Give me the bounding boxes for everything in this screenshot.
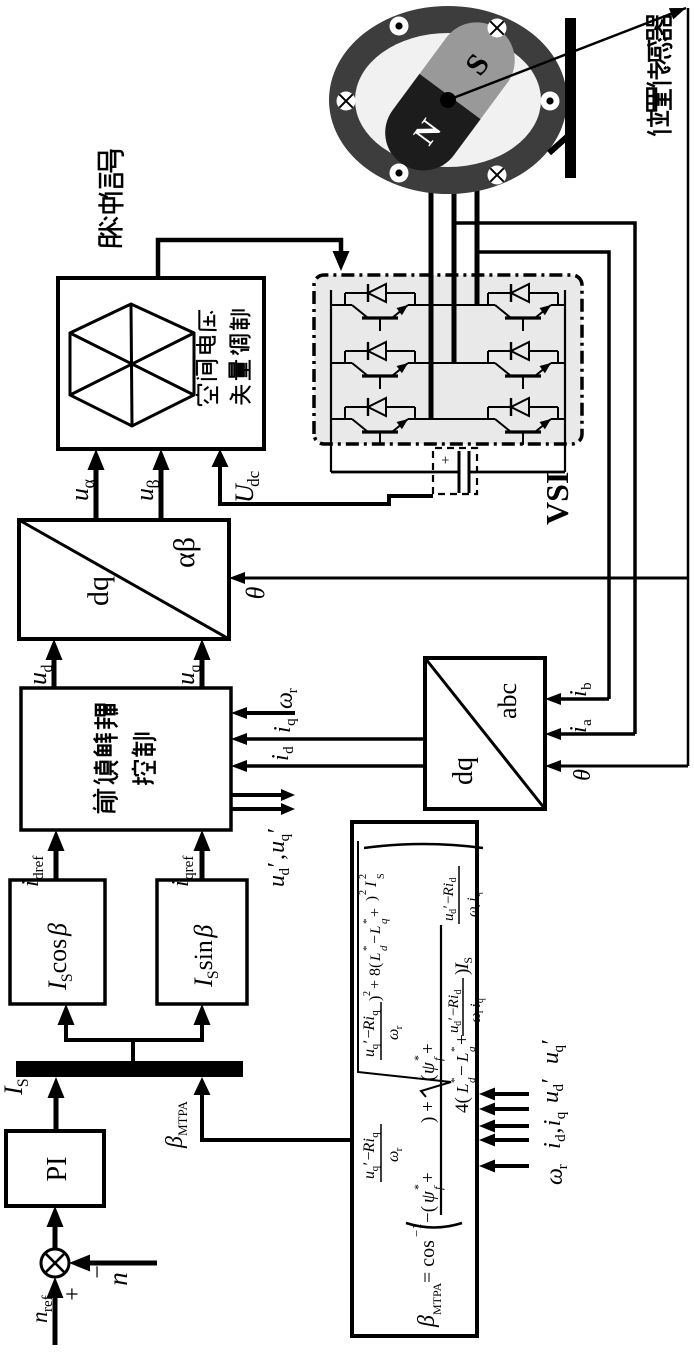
summing junction bbox=[41, 1249, 69, 1277]
svg-text:PI: PI bbox=[42, 1157, 73, 1182]
wire idref bbox=[54, 849, 59, 880]
block Is sin beta bbox=[157, 880, 247, 1004]
svg-text:ud′−Rid: ud′−Rid bbox=[446, 990, 464, 1034]
svg-text:*: * bbox=[361, 946, 373, 952]
wire ib vertical into dq-abc bbox=[550, 697, 609, 701]
hexagon space vector bbox=[70, 304, 194, 426]
IGBT Q6 bottom with diode D6 bbox=[487, 407, 489, 419]
block feedforward decoupling control bbox=[21, 688, 231, 830]
wire iqref bbox=[200, 849, 205, 880]
wire ud bbox=[52, 658, 57, 688]
svg-text:S: S bbox=[376, 873, 387, 879]
block VSI dashdot box bbox=[314, 275, 582, 444]
svg-text:+ 8(: + 8( bbox=[367, 963, 384, 989]
svg-text:): ) bbox=[364, 896, 380, 901]
block dq to abc bbox=[425, 658, 545, 809]
position sensor strut bbox=[549, 136, 568, 153]
svg-text:*: * bbox=[449, 1078, 461, 1084]
formula big fraction bar bbox=[440, 925, 442, 1215]
IGBT Q2 top with diode D2 bbox=[331, 362, 345, 364]
svg-text:VSI: VSI bbox=[539, 472, 575, 525]
svg-text:+: + bbox=[60, 1287, 86, 1301]
block PI bbox=[6, 1131, 104, 1206]
wire ia tap bbox=[454, 223, 635, 734]
svg-text:ψ: ψ bbox=[418, 1190, 439, 1203]
svg-text:+: + bbox=[438, 456, 454, 464]
wire uq bbox=[200, 658, 205, 688]
bus bar bbox=[16, 1061, 243, 1077]
position sensor bar bbox=[565, 18, 576, 178]
svg-text:−(: −( bbox=[418, 1206, 439, 1223]
IGBT Q4 bottom with diode D4 bbox=[487, 293, 489, 305]
formula big close paren bbox=[364, 844, 483, 848]
wire pulse signal bbox=[158, 240, 341, 278]
formula big open paren bbox=[406, 1223, 462, 1228]
svg-text:+: + bbox=[418, 1172, 439, 1183]
svg-text:) +: ) + bbox=[418, 1101, 439, 1123]
svg-text:n: n bbox=[103, 1272, 133, 1286]
svg-text:L: L bbox=[453, 1053, 472, 1063]
svg-text:θ: θ bbox=[241, 586, 270, 599]
VSI top rail bbox=[330, 290, 332, 472]
bolt hole dot bbox=[541, 92, 560, 111]
wire theta into dq-abc bbox=[550, 765, 688, 768]
svg-text:2: 2 bbox=[358, 890, 369, 895]
svg-text:*: * bbox=[449, 1047, 461, 1053]
wire ib tap bbox=[476, 252, 609, 699]
wire u_alpha bbox=[94, 468, 99, 520]
wire u_beta bbox=[159, 468, 164, 520]
leg midpoint wire phase 1 bbox=[415, 304, 488, 306]
wire sum to PI bbox=[53, 1225, 58, 1249]
label SVPWM chinese line1 bbox=[196, 385, 217, 405]
wire PI to bus bar bbox=[54, 1096, 59, 1131]
svg-text:ψ: ψ bbox=[418, 1061, 439, 1074]
wire beta_MTPA from formula box bbox=[202, 1091, 352, 1140]
svg-text:abc: abc bbox=[493, 683, 522, 719]
IGBT Q3 top with diode D3 bbox=[331, 418, 345, 420]
bolt hole cross bbox=[488, 19, 507, 38]
svg-text:d: d bbox=[466, 1077, 478, 1083]
label position sensor chinese bbox=[647, 111, 672, 135]
motor stator ring bbox=[329, 6, 567, 194]
wire omega_r stub bbox=[244, 711, 295, 715]
svg-text:I: I bbox=[363, 881, 380, 888]
svg-text:dq: dq bbox=[82, 576, 115, 606]
motor inner bore bbox=[355, 33, 541, 167]
svg-text:q: q bbox=[378, 918, 390, 924]
wire phase C bbox=[475, 148, 480, 305]
position sensor lead line bbox=[448, 8, 686, 100]
svg-text:2: 2 bbox=[358, 874, 369, 879]
svg-text:= cos: = cos bbox=[417, 1240, 439, 1283]
svg-text:+: + bbox=[367, 908, 384, 917]
svg-text:L: L bbox=[368, 953, 384, 962]
svg-text:(: ( bbox=[418, 1075, 439, 1081]
arrow into Issinb bbox=[200, 1023, 204, 1042]
svg-text:β: β bbox=[414, 1315, 440, 1328]
svg-text:θ: θ bbox=[570, 769, 596, 781]
svg-text:L: L bbox=[453, 1084, 472, 1094]
arrows into formula: ud' uq' bbox=[484, 1107, 529, 1111]
label SVPWM chinese line2 bbox=[230, 385, 250, 405]
leg midpoint wire phase 3 bbox=[415, 418, 488, 420]
block SVPWM bbox=[58, 278, 264, 449]
bolt hole cross bbox=[337, 92, 356, 111]
IGBT Q1 top with diode D1 bbox=[331, 304, 345, 306]
wire iq output bbox=[244, 737, 425, 741]
bolt hole dot bbox=[390, 17, 409, 36]
svg-text:ISsinβ: ISsinβ bbox=[189, 925, 222, 988]
svg-text:d: d bbox=[378, 945, 390, 951]
IGBT Q5 bottom with diode D5 bbox=[487, 351, 489, 363]
svg-text:q: q bbox=[466, 1046, 478, 1052]
wire phase B bbox=[452, 138, 457, 363]
arrows into formula: id iq bbox=[484, 1138, 529, 1142]
rotor magnet capsule bbox=[370, 7, 530, 186]
svg-text:dq: dq bbox=[448, 757, 479, 785]
wire phase A bbox=[429, 148, 434, 419]
svg-text:L: L bbox=[368, 926, 384, 935]
arrows into formula box: omega_r bbox=[484, 1164, 529, 1168]
svg-text:*: * bbox=[411, 1055, 425, 1061]
node nref input wire bbox=[53, 1296, 58, 1345]
wire theta horizontal bbox=[687, 8, 690, 766]
stub ud' uq' outputs bbox=[231, 807, 284, 811]
VSI bottom rail bbox=[564, 290, 566, 472]
svg-text:−: − bbox=[452, 1065, 473, 1076]
capacitor C1 plates bbox=[458, 451, 461, 493]
wire bar to splitter bbox=[131, 1040, 135, 1061]
svg-text:MTPA: MTPA bbox=[430, 1282, 444, 1315]
wire U_dc bbox=[220, 467, 433, 504]
bolt hole dot bbox=[390, 164, 409, 183]
wire n feedback bbox=[88, 1261, 157, 1266]
svg-text:ud′−Rid: ud′−Rid bbox=[441, 878, 459, 922]
wire id output bbox=[244, 764, 425, 768]
svg-text:+: + bbox=[418, 1043, 439, 1054]
bolt hole cross bbox=[488, 166, 507, 185]
svg-text:αβ: αβ bbox=[168, 537, 201, 568]
svg-text:−: − bbox=[367, 935, 384, 944]
VSI dc bus with capacitor gap bbox=[331, 471, 458, 474]
arrow into Iscosb bbox=[64, 1023, 68, 1042]
block MTPA formula box bbox=[352, 822, 477, 1336]
formula radical and overline bbox=[358, 841, 451, 1097]
svg-text:*: * bbox=[361, 919, 373, 925]
svg-text:*: * bbox=[411, 1184, 425, 1190]
wire theta to dq-alphabeta bbox=[242, 577, 688, 580]
capacitor dashed box bbox=[433, 448, 477, 494]
leg midpoint wire phase 2 bbox=[415, 362, 488, 364]
svg-text:2: 2 bbox=[362, 991, 373, 996]
wire ia vertical into dq-abc bbox=[550, 732, 635, 736]
svg-text:4(: 4( bbox=[452, 1097, 473, 1113]
label pulse signal chinese bbox=[98, 222, 122, 246]
block dq to alphabeta bbox=[19, 520, 229, 639]
block Is cos beta bbox=[10, 880, 105, 1004]
rotor hub dot bbox=[440, 92, 456, 108]
